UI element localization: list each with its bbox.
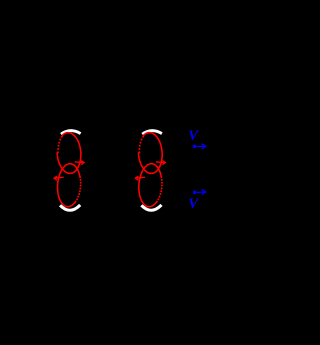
- lower ring solid arc (left): [58, 164, 80, 207]
- upper ring solid arc (left): [57, 133, 81, 174]
- white band bottom (right loop pair): [141, 205, 161, 210]
- upper ring solid arc (right): [138, 133, 162, 174]
- lower ring dotted arc (right): [157, 177, 162, 202]
- junction arrow left (right): [135, 177, 144, 180]
- upper ring dotted arc (right): [139, 136, 143, 152]
- upper ring dotted arc (left): [58, 136, 62, 152]
- velocity arrow top: [193, 144, 206, 149]
- svg-text:V: V: [188, 196, 199, 212]
- white band bottom (left loop pair): [60, 205, 80, 210]
- white band top (right loop pair): [142, 131, 162, 135]
- white band top (left loop pair): [61, 131, 81, 135]
- velocity arrow bottom: [193, 190, 206, 195]
- svg-text:V: V: [188, 128, 199, 144]
- lower ring dotted arc (left): [75, 177, 80, 202]
- lower ring solid arc (right): [139, 164, 161, 207]
- junction arrow right (right): [157, 161, 166, 164]
- junction arrow left (left): [54, 177, 63, 180]
- junction arrow right (left): [75, 161, 84, 164]
